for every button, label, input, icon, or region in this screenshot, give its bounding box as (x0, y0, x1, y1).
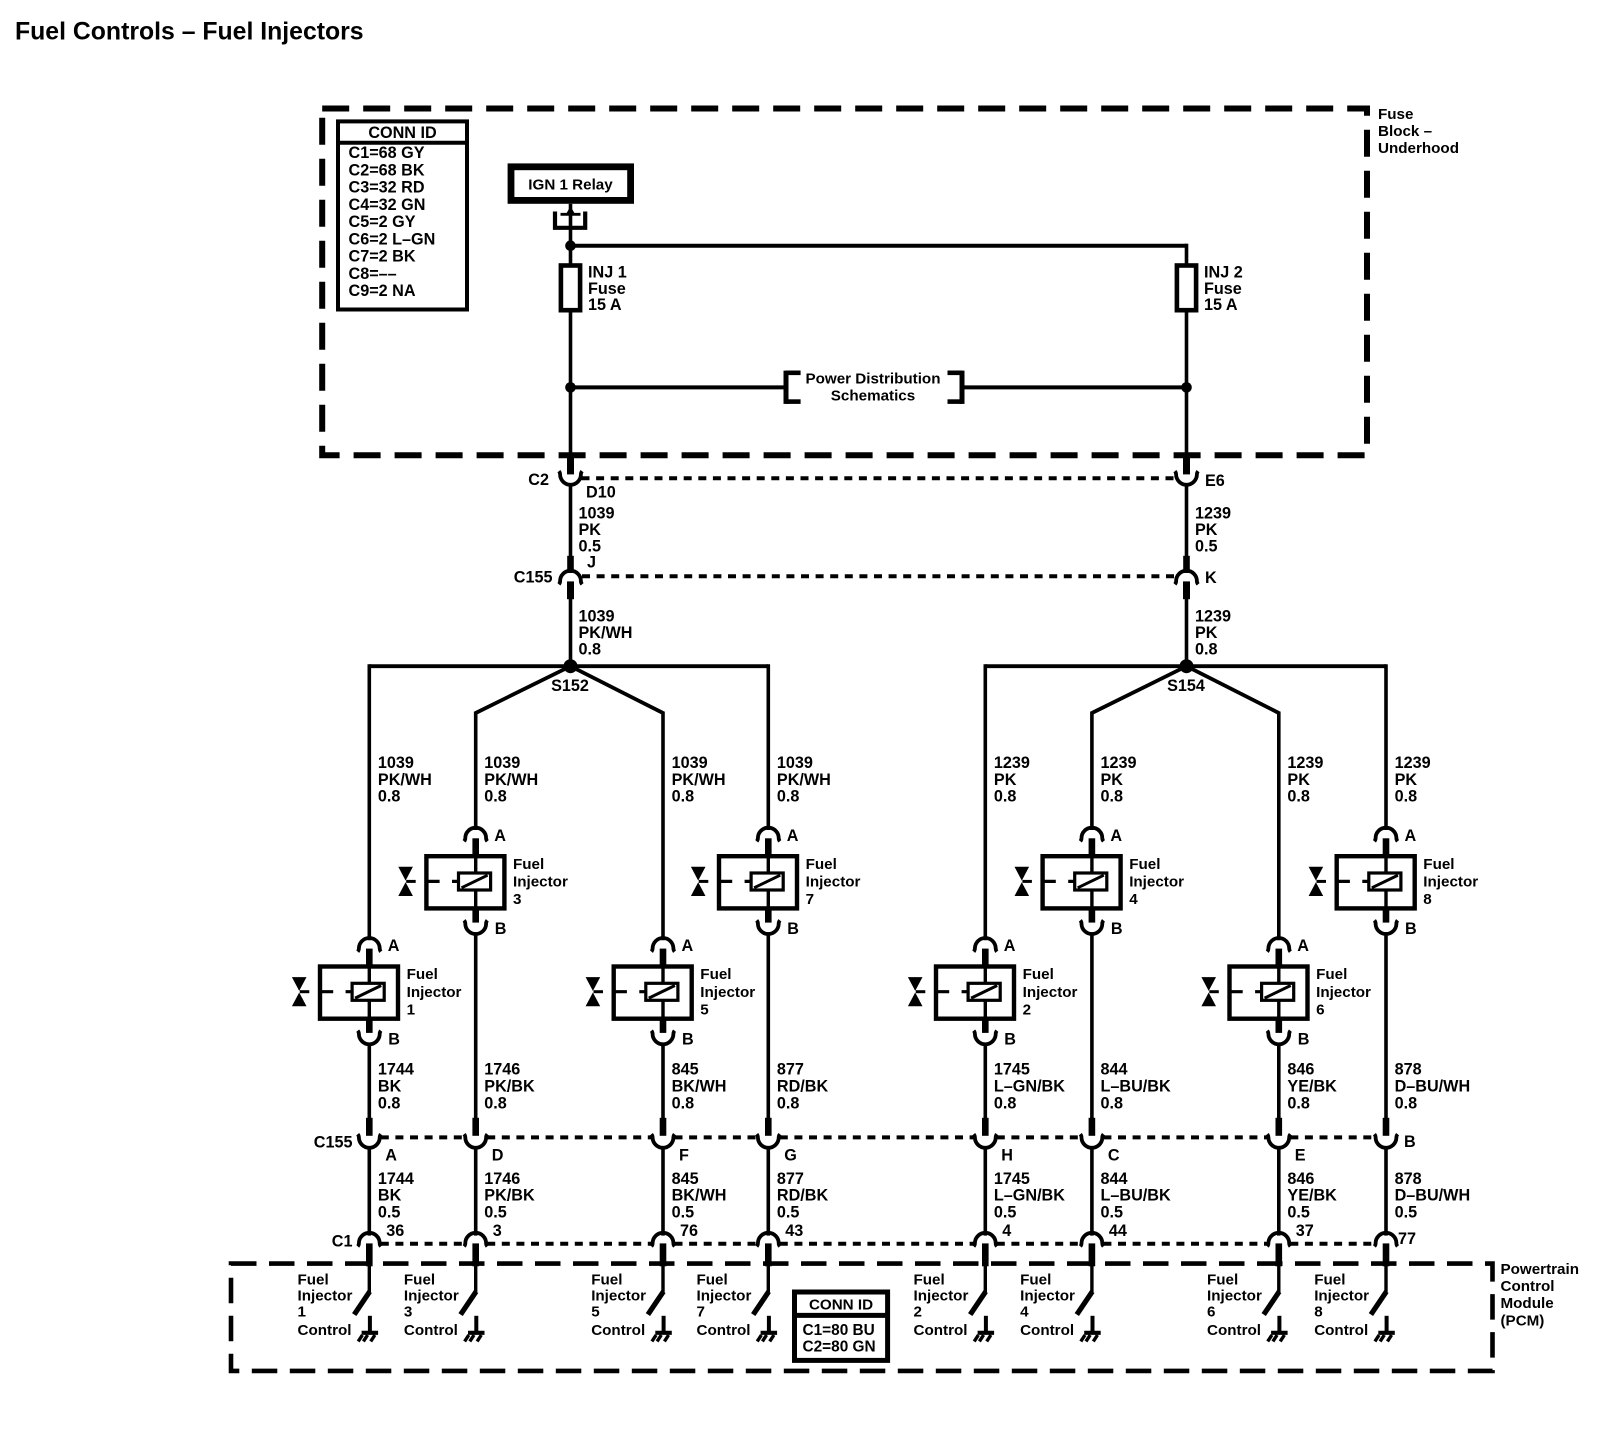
fuel injector 7 label (806, 856, 861, 908)
svg-text:4: 4 (1002, 1222, 1011, 1240)
wire 1239 PK branch to injector 2 (983, 664, 987, 940)
svg-text:B: B (787, 920, 799, 938)
svg-text:BK/WH: BK/WH (672, 1187, 727, 1205)
fuel injector 4 pin A terminal (1080, 828, 1103, 842)
svg-text:Fuel: Fuel (407, 966, 438, 983)
wire label 1039 PK/WH 0.8 (col 4) (777, 754, 831, 805)
svg-text:Injector: Injector (1423, 874, 1478, 891)
svg-text:A: A (1405, 827, 1417, 845)
svg-text:15 A: 15 A (1204, 296, 1238, 314)
svg-text:C4=32 GN: C4=32 GN (349, 196, 426, 214)
label pin G (784, 1146, 797, 1164)
fuel injector 1 pin B terminal (358, 1031, 381, 1045)
wire injector 3 pin B to C155 (474, 932, 478, 1119)
svg-text:1239: 1239 (1395, 754, 1431, 772)
svg-text:0.8: 0.8 (484, 788, 507, 806)
label pin 44 (1109, 1222, 1127, 1240)
splice rail S152 (369, 664, 768, 668)
svg-text:PK: PK (994, 771, 1017, 789)
connector row C1 (dashed) (381, 1242, 1375, 1246)
fuel injector 2 valve (pintle) (908, 977, 925, 1006)
fuel injector 3 pin A stub (472, 838, 479, 857)
fuel injector 4 linkage (dashed) (1043, 880, 1075, 883)
junction feed rail left (565, 240, 576, 251)
svg-text:Injector: Injector (404, 1288, 459, 1305)
wire 845 BK/WH (C155 to PCM) (661, 1146, 665, 1235)
wire injector 5 pin B to C155 (661, 1043, 665, 1120)
label Fuel Injector 3 Control (404, 1272, 459, 1339)
wire label 1239 PK 0.8 (col 8) (1395, 754, 1431, 805)
fuse INJ 1 15 A (561, 266, 580, 311)
svg-text:Fuel: Fuel (591, 1272, 622, 1289)
fuel injector 7 body (719, 856, 797, 908)
fuel injector 4 label (1129, 856, 1184, 908)
fuel injector 8 pin A label (1405, 827, 1417, 845)
svg-text:RD/BK: RD/BK (777, 1078, 829, 1096)
wire 844 L–BU/BK (C155 to PCM) (1090, 1146, 1094, 1235)
svg-text:A: A (494, 827, 506, 845)
junction power distribution right (1181, 382, 1192, 393)
svg-text:7: 7 (806, 891, 814, 908)
svg-text:3: 3 (404, 1304, 412, 1321)
fuel injector 8 pin B label (1405, 920, 1417, 938)
bracket left (786, 371, 801, 404)
connector C155 terminal pin D (464, 1134, 487, 1148)
svg-text:Fuel: Fuel (1316, 966, 1347, 983)
fuel injector 6 pin B label (1298, 1031, 1310, 1049)
connector C1 terminal pin 36 (358, 1233, 381, 1247)
svg-text:PK/WH: PK/WH (672, 771, 726, 789)
wire injector 4 pin B to C155 (1090, 932, 1094, 1119)
driver switch injector 6 control (1264, 1292, 1280, 1315)
connector C155 terminal pin B (1374, 1134, 1397, 1148)
svg-text:C1: C1 (332, 1233, 353, 1251)
wire C1 to injector 7 driver (767, 1266, 770, 1293)
connector C155 pin D stub (472, 1118, 479, 1136)
svg-text:0.8: 0.8 (1101, 788, 1124, 806)
svg-text:H: H (1001, 1146, 1013, 1164)
fuel injector 4 coil (1075, 856, 1107, 908)
svg-text:1: 1 (407, 1001, 416, 1018)
svg-text:Control: Control (697, 1322, 751, 1339)
label pin B (1404, 1133, 1416, 1151)
svg-text:Control: Control (1020, 1322, 1074, 1339)
svg-text:4: 4 (1020, 1304, 1029, 1321)
svg-text:0.8: 0.8 (1287, 788, 1310, 806)
connector C1 pin 77 stub (1383, 1243, 1390, 1266)
svg-text:Fuel: Fuel (298, 1272, 329, 1289)
fuel injector 4 pin B stub (1089, 907, 1096, 922)
svg-text:44: 44 (1109, 1222, 1127, 1240)
fuel injector 6 pin A label (1297, 937, 1309, 955)
fuel injector 8 pin A stub (1383, 838, 1390, 857)
svg-text:0.5: 0.5 (777, 1203, 800, 1221)
fuel injector 7 pin B terminal (757, 920, 780, 934)
fuel injector 4 pin B terminal (1080, 920, 1103, 934)
fuel injector 5 pin A label (682, 937, 694, 955)
connector C2 terminal (559, 471, 582, 485)
fuel injector 1 pin B label (388, 1031, 400, 1049)
wire label 845 BK/WH 0.5 (672, 1170, 727, 1221)
svg-text:8: 8 (1423, 891, 1431, 908)
svg-text:A: A (787, 827, 799, 845)
wire 877 RD/BK (C155 to PCM) (766, 1146, 770, 1235)
svg-text:S154: S154 (1167, 677, 1205, 695)
svg-text:0.8: 0.8 (672, 788, 695, 806)
ground (injector 6 driver) (1268, 1316, 1288, 1342)
label pin D (492, 1146, 504, 1164)
connector E6 terminal (1175, 471, 1198, 485)
connector C155 terminal pin A (358, 1134, 381, 1148)
svg-text:Injector: Injector (1207, 1288, 1262, 1305)
connector row C155 (dashed) (381, 1135, 1375, 1139)
label Fuel Injector 8 Control (1314, 1272, 1369, 1339)
svg-text:36: 36 (386, 1222, 404, 1240)
svg-text:B: B (1004, 1031, 1016, 1049)
ground (injector 3 driver) (465, 1316, 485, 1342)
wire label 1239 PK 0.8 (col 7) (1287, 754, 1323, 805)
svg-text:Injector: Injector (697, 1288, 752, 1305)
svg-text:0.8: 0.8 (378, 1094, 401, 1112)
fuel injector 7 pin B stub (765, 907, 772, 922)
fuel injector 4 pin B label (1111, 920, 1123, 938)
svg-text:Fuel: Fuel (1020, 1272, 1051, 1289)
fuel injector 2 pin B stub (982, 1018, 989, 1033)
svg-text:PK/BK: PK/BK (484, 1078, 535, 1096)
fuel injector 5 label (700, 966, 755, 1018)
svg-text:C8=––: C8=–– (349, 265, 397, 283)
svg-text:PK/WH: PK/WH (777, 771, 831, 789)
svg-text:B: B (388, 1031, 400, 1049)
fuel injector 2 linkage (dashed) (936, 990, 968, 993)
connector C155 pin F stub (660, 1118, 667, 1136)
label pin J (587, 554, 596, 572)
svg-text:877: 877 (777, 1170, 804, 1188)
relay output terminal (male pin in socket) (555, 206, 585, 228)
svg-text:0.5: 0.5 (1395, 1203, 1418, 1221)
svg-text:0.8: 0.8 (777, 1094, 800, 1112)
wire label 1744 BK 0.8 (378, 1061, 414, 1113)
splice S154 (1180, 659, 1194, 673)
fuel injector 2 pin A terminal (974, 938, 997, 952)
connector C155 terminal pin E (1267, 1134, 1290, 1148)
svg-text:F: F (679, 1146, 689, 1164)
wire 1239 PK branch to injector 4 (1090, 712, 1094, 831)
CONN ID table (fuse block) (338, 121, 467, 309)
wire injector 2 pin B to C155 (983, 1043, 987, 1120)
wire label 1239 PK 0.8 (col 5) (994, 754, 1030, 805)
connector C155 pin G stub (765, 1118, 772, 1136)
title Fuel Controls - Fuel Injectors (15, 19, 364, 46)
svg-text:878: 878 (1395, 1061, 1422, 1079)
label pin H (1001, 1146, 1013, 1164)
svg-text:Fuel: Fuel (697, 1272, 728, 1289)
svg-text:B: B (682, 1031, 694, 1049)
wire 1239 PK (E6 to K) (1185, 483, 1189, 557)
svg-text:Injector: Injector (914, 1288, 969, 1305)
svg-text:1239: 1239 (1195, 505, 1231, 523)
fuel injector 3 pin B stub (472, 907, 479, 922)
wire 1039 PK/WH branch to injector 5 (661, 712, 665, 941)
svg-text:Injector: Injector (591, 1288, 646, 1305)
label pin 77 (1398, 1230, 1416, 1248)
svg-text:D10: D10 (586, 484, 616, 502)
svg-text:Control: Control (1501, 1278, 1555, 1295)
svg-text:INJ 1: INJ 1 (588, 264, 627, 282)
svg-text:PK: PK (1287, 771, 1310, 789)
wire label 1745 L–GN/BK 0.5 (994, 1170, 1065, 1221)
label C2 (528, 471, 549, 489)
fuel injector 3 pin B terminal (464, 920, 487, 934)
fuel injector 7 pin A terminal (757, 828, 780, 842)
connector C1 terminal pin 37 (1267, 1233, 1290, 1247)
fuel injector 5 body (614, 967, 692, 1019)
fuel injector 6 coil (1262, 967, 1294, 1019)
svg-text:C2=68 BK: C2=68 BK (349, 161, 425, 179)
label pin 4 (1002, 1222, 1011, 1240)
fuel injector 1 body (320, 967, 398, 1019)
fuel injector 7 pin A label (787, 827, 799, 845)
connector C1 pin 37 stub (1276, 1243, 1283, 1266)
svg-text:PK: PK (1195, 521, 1218, 539)
svg-text:1746: 1746 (484, 1061, 520, 1079)
svg-text:15 A: 15 A (588, 296, 622, 314)
svg-text:0.5: 0.5 (484, 1203, 507, 1221)
svg-text:Fuel: Fuel (404, 1272, 435, 1289)
fuel injector 3 linkage (dashed) (426, 880, 458, 883)
svg-text:1239: 1239 (1287, 754, 1323, 772)
relay K1 IGN 1 Relay (511, 167, 631, 201)
connector C155 terminal pin C (1080, 1134, 1103, 1148)
svg-text:G: G (784, 1146, 797, 1164)
fuel injector 2 pin A stub (982, 949, 989, 968)
svg-text:1039: 1039 (777, 754, 813, 772)
wire label 1239 PK 0.8 (1195, 608, 1231, 659)
svg-text:D–BU/WH: D–BU/WH (1395, 1078, 1471, 1096)
svg-text:845: 845 (672, 1061, 699, 1079)
fuel injector 1 label (407, 966, 462, 1018)
svg-text:6: 6 (1316, 1001, 1324, 1018)
fuel injector 7 linkage (dashed) (719, 880, 751, 883)
svg-text:845: 845 (672, 1170, 699, 1188)
fuel injector 6 valve (pintle) (1201, 977, 1218, 1006)
driver switch injector 7 control (753, 1292, 769, 1315)
svg-text:Control: Control (298, 1322, 352, 1339)
splice S152 (564, 659, 578, 673)
connector C1 terminal pin 43 (757, 1233, 780, 1247)
wire INJ 1 fuse to C2 (569, 310, 573, 457)
connector K stub upper (1183, 556, 1190, 573)
fuel injector 6 body (1230, 967, 1308, 1019)
svg-text:0.8: 0.8 (1395, 1094, 1418, 1112)
wire rail to INJ 1 fuse (569, 246, 573, 266)
svg-text:L–BU/BK: L–BU/BK (1101, 1187, 1171, 1205)
wire injector 7 pin B to C155 (766, 932, 770, 1119)
label INJ 2 Fuse 15 A (1204, 264, 1243, 315)
connector C1 pin 4 stub (982, 1243, 989, 1266)
svg-text:846: 846 (1287, 1061, 1314, 1079)
fuel injector 3 coil (459, 856, 491, 908)
svg-text:Fuel: Fuel (806, 856, 837, 873)
wire label 1039 PK/WH 0.8 (579, 608, 633, 659)
wire injector 8 pin B to C155 (1384, 932, 1388, 1119)
connector C155 pin H stub (982, 1118, 989, 1136)
svg-text:0.5: 0.5 (1195, 538, 1218, 556)
svg-text:1745: 1745 (994, 1061, 1030, 1079)
fuse INJ 2 15 A (1177, 266, 1196, 311)
svg-text:BK: BK (378, 1078, 402, 1096)
fuel injector 2 label (1023, 966, 1078, 1018)
wire label 877 RD/BK 0.5 (777, 1170, 829, 1221)
svg-text:846: 846 (1287, 1170, 1314, 1188)
svg-text:2: 2 (914, 1304, 922, 1321)
fuel injector 7 valve (pintle) (691, 867, 708, 896)
svg-text:1744: 1744 (378, 1061, 414, 1079)
svg-text:1039: 1039 (484, 754, 520, 772)
label pin 36 (386, 1222, 404, 1240)
fuel injector 8 pin A terminal (1374, 828, 1397, 842)
wire label 1039 PK 0.5 (579, 505, 615, 556)
svg-text:BK/WH: BK/WH (672, 1078, 727, 1096)
fuel injector 8 valve (pintle) (1309, 867, 1326, 896)
svg-text:Injector: Injector (1020, 1288, 1075, 1305)
splice S154 diagonal to col 7 (1187, 666, 1279, 713)
wire 1744 BK (C155 to PCM) (367, 1146, 371, 1235)
svg-text:0.8: 0.8 (1195, 641, 1218, 659)
svg-text:37: 37 (1296, 1222, 1314, 1240)
svg-text:4: 4 (1129, 891, 1138, 908)
fuel injector 1 coil (352, 967, 384, 1019)
svg-text:D–BU/WH: D–BU/WH (1395, 1187, 1471, 1205)
label E6 (1205, 472, 1225, 490)
fuel injector 5 pin B terminal (651, 1031, 674, 1045)
svg-text:878: 878 (1395, 1170, 1422, 1188)
connector C155 pin J lower stub (567, 581, 574, 599)
svg-text:C7=2 BK: C7=2 BK (349, 248, 416, 266)
fuel injector 3 pin A terminal (464, 828, 487, 842)
fuel injector 1 valve (pintle) (292, 977, 309, 1006)
connector C155 terminal pin G (757, 1134, 780, 1148)
svg-text:E: E (1295, 1146, 1306, 1164)
powertrain control module (dashed enclosure) (231, 1264, 1493, 1371)
fuel injector 8 pin B stub (1383, 907, 1390, 922)
svg-text:A: A (385, 1146, 397, 1164)
connector C1 terminal pin 77 (1374, 1233, 1397, 1247)
connector C1 pin 76 stub (660, 1243, 667, 1266)
svg-text:Fuel: Fuel (513, 856, 544, 873)
svg-text:1: 1 (298, 1304, 307, 1321)
fuel injector 3 pin A label (494, 827, 506, 845)
svg-text:Fuel: Fuel (1129, 856, 1160, 873)
svg-text:844: 844 (1101, 1061, 1128, 1079)
svg-text:INJ 2: INJ 2 (1204, 264, 1243, 282)
connector C1 terminal pin 76 (651, 1233, 674, 1247)
wire 846 YE/BK (C155 to PCM) (1277, 1146, 1281, 1235)
wire label 1746 PK/BK 0.5 (484, 1170, 535, 1221)
splice S152 diagonal to col 3 (571, 666, 664, 713)
svg-text:5: 5 (700, 1001, 709, 1018)
wire rail corner down to INJ 2 fuse (1185, 244, 1189, 266)
wire label 845 BK/WH 0.8 (672, 1061, 727, 1113)
svg-text:1239: 1239 (1101, 754, 1137, 772)
svg-text:0.8: 0.8 (484, 1094, 507, 1112)
svg-text:1239: 1239 (994, 754, 1030, 772)
svg-text:Control: Control (914, 1322, 968, 1339)
splice S152 diagonal to col 2 (476, 666, 571, 713)
label Fuel Injector 1 Control (298, 1272, 353, 1339)
label Powertrain Control Module (PCM) (1501, 1261, 1580, 1329)
svg-text:CONN ID: CONN ID (809, 1296, 873, 1313)
svg-text:0.8: 0.8 (777, 788, 800, 806)
driver switch injector 3 control (461, 1292, 477, 1315)
power distribution reference line (571, 385, 1187, 389)
svg-text:Module: Module (1501, 1295, 1554, 1312)
svg-text:A: A (682, 937, 694, 955)
wire label 1039 PK/WH 0.8 (col 1) (378, 754, 432, 805)
svg-text:43: 43 (785, 1222, 803, 1240)
wire INJ 2 fuse to E6 (1185, 310, 1189, 457)
svg-text:0.8: 0.8 (994, 788, 1017, 806)
ground (injector 4 driver) (1081, 1316, 1101, 1342)
fuel injector 5 pin B stub (660, 1018, 667, 1033)
splice rail S154 (985, 664, 1386, 668)
fuel injector 2 pin B label (1004, 1031, 1016, 1049)
connector C155 pin C stub (1089, 1118, 1096, 1136)
label INJ 1 Fuse 15 A (588, 264, 627, 315)
wire 1039 PK/WH (C155 to S152) (569, 599, 573, 666)
svg-text:0.5: 0.5 (1287, 1203, 1310, 1221)
ground (injector 2 driver) (974, 1316, 994, 1342)
svg-text:0.5: 0.5 (1101, 1203, 1124, 1221)
connector C1 pin 43 stub (765, 1243, 772, 1266)
svg-text:6: 6 (1207, 1304, 1215, 1321)
svg-text:J: J (587, 554, 596, 572)
fuel injector 6 pin A stub (1276, 949, 1283, 968)
label pin A (385, 1146, 397, 1164)
wire label 1746 PK/BK 0.8 (484, 1061, 535, 1113)
svg-text:A: A (1004, 937, 1016, 955)
wire label 1039 PK/WH 0.8 (col 2) (484, 754, 538, 805)
fuel injector 2 pin B terminal (974, 1031, 997, 1045)
svg-text:Injector: Injector (806, 874, 861, 891)
ground (injector 5 driver) (652, 1316, 672, 1342)
wire label 1239 PK 0.8 (col 6) (1101, 754, 1137, 805)
fuel injector 8 body (1337, 856, 1415, 908)
svg-text:A: A (388, 937, 400, 955)
connector C1 pin 36 stub (366, 1243, 373, 1266)
wire label 1239 PK 0.5 (1195, 505, 1231, 556)
svg-text:Fuel: Fuel (1423, 856, 1454, 873)
svg-text:B: B (1404, 1133, 1416, 1151)
svg-text:RD/BK: RD/BK (777, 1187, 829, 1205)
svg-text:L–BU/BK: L–BU/BK (1101, 1078, 1171, 1096)
wire label 846 YE/BK 0.8 (1287, 1061, 1337, 1113)
svg-text:PK/BK: PK/BK (484, 1187, 535, 1205)
svg-text:Injector: Injector (1023, 984, 1078, 1001)
svg-text:(PCM): (PCM) (1501, 1312, 1545, 1329)
svg-text:C9=2 NA: C9=2 NA (349, 282, 416, 300)
svg-text:Injector: Injector (1314, 1288, 1369, 1305)
feed rail wire (relay to INJ 2 fuse) (571, 244, 1187, 248)
svg-text:7: 7 (697, 1304, 705, 1321)
wire 1239 PK (K to S154) (1185, 599, 1189, 666)
bracket right (948, 371, 963, 404)
connector C155 terminal J (559, 571, 582, 585)
wire label 846 YE/BK 0.5 (1287, 1170, 1337, 1221)
wire injector 1 pin B to C155 (367, 1043, 371, 1120)
svg-text:1745: 1745 (994, 1170, 1030, 1188)
svg-text:D: D (492, 1146, 504, 1164)
